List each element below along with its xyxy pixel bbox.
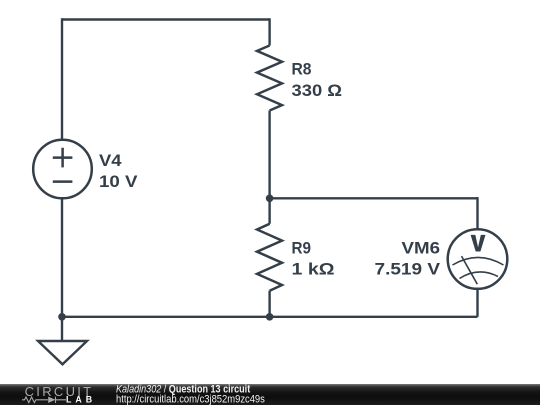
node junction bottom-left <box>58 313 66 321</box>
wire left vertical (top corner to V4) <box>61 18 63 139</box>
wire R9 bottom <box>268 291 270 317</box>
svg-text:R8: R8 <box>292 61 312 79</box>
node junction bottom-middle <box>266 313 274 321</box>
wire V4 bottom to ground junction <box>61 198 63 316</box>
wire VM6 bottom vertical <box>476 289 478 317</box>
resistor R9 <box>257 224 282 291</box>
ground <box>38 341 87 364</box>
node A junction <box>266 195 274 203</box>
wire VM6 top vertical <box>476 197 478 229</box>
wire right vertical (top corner to R8) <box>268 18 270 45</box>
wire top horizontal (V4 top to R8 top) <box>62 18 270 20</box>
footer line 2: url <box>116 394 265 405</box>
svg-text:330 Ω: 330 Ω <box>292 82 343 100</box>
svg-text:10 V: 10 V <box>99 173 138 191</box>
resistor R8 <box>257 46 282 111</box>
wire bottom horizontal <box>62 316 478 318</box>
CircuitLab logo resistor-diode line <box>22 397 66 403</box>
voltmeter VM6 <box>448 229 508 289</box>
label R9 <box>292 239 335 278</box>
voltage source V4 <box>33 140 92 199</box>
wire node A to R9 <box>268 198 270 224</box>
svg-text:VM6: VM6 <box>402 239 441 257</box>
svg-text:7.519 V: 7.519 V <box>375 261 441 279</box>
label VM6 <box>375 239 441 278</box>
svg-text:http://circuitlab.com/c3j852m9: http://circuitlab.com/c3j852m9zc49s <box>116 394 265 405</box>
footer bar <box>0 384 540 405</box>
svg-text:V4: V4 <box>99 152 122 170</box>
wire R8 bottom to node A <box>268 111 270 199</box>
label R8 <box>292 61 343 100</box>
wire middle horizontal (node A to VM6) <box>270 197 478 199</box>
label V4 <box>99 152 138 191</box>
wire ground stub <box>61 317 63 341</box>
svg-text:1 kΩ: 1 kΩ <box>292 261 335 279</box>
svg-text:LAB: LAB <box>66 394 96 404</box>
svg-text:R9: R9 <box>292 239 312 257</box>
footer line 1: author / title <box>116 384 251 396</box>
